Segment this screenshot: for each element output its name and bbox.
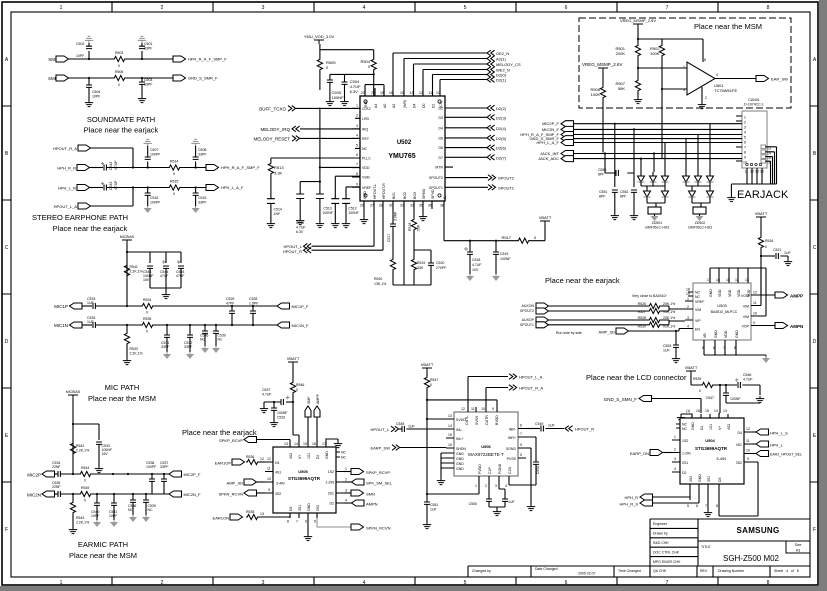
svg-text:VBATT: VBATT [421,362,434,367]
svg-text:RST: RST [362,137,370,141]
svg-text:AUXOP: AUXOP [522,318,535,322]
wire HPOUT_R_A [486,388,508,408]
wire soundmate line2 [69,77,174,79]
flag HPH_L_A_F [206,185,244,191]
node AMP_SD U505 [227,479,265,486]
svg-text:C1N: C1N [508,467,512,474]
text Run side by side [556,331,582,335]
svg-text:D5: D5 [439,136,444,140]
ground up [85,36,93,46]
capacitor C511 4.7UF 6.3V [296,108,360,235]
svg-text:D7: D7 [439,156,444,160]
svg-text:D4: D4 [439,126,444,130]
svg-text:Place near the earjack: Place near the earjack [53,224,128,233]
ground [85,87,93,106]
svg-text:10: 10 [481,407,485,411]
wire mic1p [95,305,277,307]
node EAR2_HPOUT_SEL [752,451,802,457]
svg-text:(1): (1) [686,409,690,413]
svg-text:R534: R534 [143,298,151,302]
capacitor C535b 22NF [52,481,61,497]
svg-text:2: 2 [356,113,358,117]
svg-text:VBATT: VBATT [685,365,698,370]
svg-text:A0: A0 [383,104,387,108]
svg-text:SPOUT1: SPOUT1 [520,323,534,327]
svg-text:17: 17 [322,442,326,446]
capacitor C538 100PF [146,461,156,494]
IC U502 YMU765 [352,88,453,209]
svg-text:NC: NC [341,451,347,455]
resistor R514 0 [168,160,181,177]
resistor R515 0 [168,180,181,197]
resistor R513 3.3K [268,158,360,176]
svg-text:SPOUT1: SPOUT1 [498,185,515,190]
svg-text:8: 8 [744,151,746,155]
svg-text:100NF: 100NF [277,411,288,415]
svg-text:F: F [813,527,816,533]
svg-text:SGH-Z500 M02: SGH-Z500 M02 [723,554,780,563]
svg-text:D2: D2 [330,502,335,506]
node SPKN_RCVN left [219,490,265,497]
node SPOUT1b [520,322,648,328]
svg-text:10: 10 [746,449,750,453]
wire BVDD rail [427,400,497,407]
svg-text:R513: R513 [274,165,284,170]
svg-text:18: 18 [380,91,384,95]
svg-text:AMP_SD: AMP_SD [227,481,244,486]
svg-text:31: 31 [400,204,404,208]
svg-text:3: 3 [262,5,265,11]
capacitor C534 22NF [52,461,61,477]
node D2(1) [487,77,507,83]
wire SVDD [427,418,446,420]
svg-text:MIC1N_F: MIC1N_F [292,323,310,328]
net VREG_MSMP_2.6V left [582,62,623,72]
svg-text:C537: C537 [262,388,270,392]
svg-text:BO1: BO1 [392,192,396,199]
svg-text:SMP: SMP [307,396,311,404]
svg-text:SPKP_RCVP: SPKP_RCVP [219,438,243,443]
capacitor C551b 1UF [424,502,438,522]
ground up [191,139,199,157]
svg-text:GND: GND [698,474,702,482]
svg-text:12: 12 [419,91,423,95]
svg-text:Place near the MSM: Place near the MSM [69,551,137,560]
node HPOUT_R_A [509,385,543,391]
wire [638,39,687,79]
IC U503 BA4510_MLPCC [685,278,757,350]
svg-text:SPMO: SPMO [422,188,426,199]
svg-text:SVDD: SVDD [456,418,466,422]
capacitor C510 [296,181,321,219]
node EARP_ON [630,450,672,457]
ground [630,192,638,219]
svg-text:NC: NC [695,291,701,295]
svg-text:AMPN: AMPN [366,502,378,507]
svg-text:GND: GND [325,451,329,459]
ground tri [93,505,101,527]
wire PVDD to rail [427,481,479,494]
svg-text:C550: C550 [598,168,606,172]
svg-text:8PF: 8PF [599,195,605,199]
node AMP_SD [599,328,685,334]
resistor R530 91K 1% [638,320,685,329]
svg-text:MIC1N: MIC1N [54,323,68,328]
svg-text:10V: 10V [472,268,479,272]
text Place near the earjack (U503) [545,276,620,285]
svg-text:C529: C529 [226,297,234,301]
ground [270,420,278,427]
svg-text:4: 4 [505,484,507,488]
svg-text:6: 6 [565,580,568,586]
node D2(4) [453,125,507,131]
svg-text:4S1: 4S1 [275,471,281,475]
resistor R547 0 [424,376,438,502]
svg-text:0: 0 [296,388,298,392]
svg-text:C516: C516 [150,196,158,200]
svg-text:V+: V+ [718,426,722,430]
svg-text:R533: R533 [130,347,138,351]
svg-text:GND: GND [456,462,464,466]
svg-text:VREG_MSMP_2.6V: VREG_MSMP_2.6V [582,62,623,67]
svg-text:2005.02.07: 2005.02.07 [578,572,596,576]
IC U505 STG3699AQTR [265,442,347,524]
svg-text:D1: D1 [316,454,320,459]
node MELODY_RESET [253,136,360,142]
svg-text:0: 0 [765,245,767,249]
svg-text:6: 6 [744,141,746,145]
svg-text:ZD502: ZD502 [695,221,706,225]
svg-text:2S1: 2S1 [682,461,688,465]
svg-text:7: 7 [744,146,746,150]
flag AMPP up [314,393,320,442]
svg-text:R535: R535 [246,510,254,514]
wire 3S2 down [719,462,758,516]
node SPKP_RCVP left [219,437,290,444]
svg-text:VSM: VSM [362,176,370,180]
ground pin [419,209,427,221]
svg-text:R546: R546 [296,383,304,387]
svg-text:1UF: 1UF [87,320,94,324]
capacitor C543b 100NF 16V [143,266,154,282]
svg-text:R503: R503 [115,51,123,55]
svg-text:D2(1): D2(1) [496,78,507,83]
svg-text:SPKP_RCVP: SPKP_RCVP [366,470,390,475]
ground [342,221,350,228]
wire vbatt bus [444,209,545,241]
node A2(1) [487,56,506,62]
node WE2_N [487,67,510,73]
ground U504 pin17 [677,414,692,422]
capacitor C501 33PF [139,42,152,59]
svg-text:YMU765: YMU765 [388,153,415,160]
svg-text:VIM: VIM [695,308,701,312]
wire earmic bias [73,399,99,474]
node MIC2N_F [542,126,574,132]
svg-text:C508: C508 [198,148,206,152]
svg-text:3S1: 3S1 [298,505,302,511]
ground tri [186,337,194,359]
svg-text:Place near the earjack: Place near the earjack [545,276,620,285]
svg-text:GND: GND [456,467,464,471]
svg-text:MAX9722BETE-T: MAX9722BETE-T [468,452,504,457]
svg-text:11: 11 [746,439,750,443]
node MELODY_IRQ [260,126,360,132]
node D2(7) [453,155,507,161]
svg-text:35: 35 [419,204,423,208]
capacitor C533 1UF [82,297,95,309]
node HPOUT_R [283,209,383,254]
svg-text:6.3V: 6.3V [296,230,304,234]
capacitor C542 4.7UF [90,160,119,170]
svg-text:4.7UF: 4.7UF [743,378,753,382]
svg-text:D3: D3 [289,506,293,511]
capacitor C553 1UF [663,330,679,356]
node JACK_INT [540,151,573,157]
svg-text:D2: D2 [682,471,687,475]
wire [91,148,134,168]
svg-text:Time Changed: Time Changed [618,569,641,573]
svg-text:GND: GND [363,191,367,199]
node AUXON SPOUT2 [522,303,648,309]
svg-text:0: 0 [173,192,175,196]
svg-text:R519: R519 [417,261,425,265]
svg-text:3: 3 [356,124,358,128]
svg-text:VDD: VDD [724,330,728,338]
svg-text:Size: Size [795,543,802,547]
node HPOUT_L_A [509,374,543,380]
wire mic2n [60,493,169,495]
ground U502 pin GND [360,209,368,224]
svg-text:8: 8 [716,504,718,508]
svg-text:15: 15 [726,278,730,282]
resistor R506 0 [113,70,126,87]
svg-text:14: 14 [735,278,739,282]
svg-text:21: 21 [371,91,375,95]
net VBATT U505 [287,356,300,381]
svg-text:1S1: 1S1 [307,453,311,459]
svg-text:EAR_SW: EAR_SW [771,77,788,82]
svg-text:6.3V: 6.3V [350,89,359,94]
capacitor C544 47UF [160,260,169,278]
svg-text:100NF: 100NF [500,257,511,261]
svg-text:270PF: 270PF [436,266,446,270]
ground tri [466,274,474,281]
svg-text:4: 4 [356,134,358,138]
svg-text:HPH_R_A_F_SMP_F: HPH_R_A_F_SMP_F [221,165,260,170]
svg-text:1: 1 [345,467,347,471]
svg-text:D1: D1 [700,425,704,430]
svg-text:4.7UF: 4.7UF [472,263,482,267]
svg-text:8: 8 [356,172,358,176]
capacitor C541 10PF [109,494,117,518]
svg-text:GND: GND [709,289,713,297]
svg-text:9: 9 [268,488,270,492]
svg-text:33PF: 33PF [144,83,152,87]
svg-text:BO2: BO2 [403,192,407,199]
svg-text:38: 38 [440,204,444,208]
capacitor C534b 1UF [82,316,95,328]
svg-text:VBATT: VBATT [287,356,300,361]
flag HPH_R_A_F_SMP_F [206,165,260,171]
svg-text:1UF: 1UF [548,424,555,428]
svg-text:D6: D6 [439,146,444,150]
svg-text:GND: GND [456,452,464,456]
svg-text:C552: C552 [536,466,540,474]
svg-text:HPOUT-R: HPOUT-R [382,183,386,199]
svg-text:GND: GND [691,422,695,430]
svg-text:NC: NC [682,427,688,431]
svg-text:8: 8 [767,5,770,11]
svg-text:27: 27 [370,204,374,208]
svg-text:SPKN_RCVN: SPKN_RCVN [219,492,244,497]
net VBATT (left) [539,215,552,241]
svg-text:11: 11 [267,467,271,471]
svg-text:1S2: 1S2 [682,439,688,443]
svg-text:33PF: 33PF [161,345,169,349]
svg-text:VOM: VOM [741,294,749,298]
ground [267,221,275,228]
svg-text:16V: 16V [102,452,109,456]
svg-text:8PF: 8PF [598,173,604,177]
svg-text:SPOUT1: SPOUT1 [429,186,443,190]
svg-text:200K: 200K [616,51,626,56]
svg-text:7: 7 [705,504,707,508]
svg-text:2.2K,1%: 2.2K,1% [76,521,89,525]
svg-text:6: 6 [565,5,568,11]
IC U506 MAX9722BETE-T [446,407,526,488]
node HPOUT_L to U506 [371,422,446,432]
svg-text:MTR: MTR [435,166,443,170]
svg-text:MELODY_IRQ: MELODY_IRQ [260,127,290,132]
svg-text:9: 9 [356,182,358,186]
svg-text:VDD: VDD [718,289,722,297]
svg-text:Run side by side: Run side by side [556,331,582,335]
ground earjack [727,184,735,202]
resistor R516 0 [758,236,773,268]
svg-text:C1P: C1P [488,467,492,474]
wire bottom bus [393,284,431,286]
svg-text:17: 17 [707,278,711,282]
node EAR1ON [213,510,290,521]
ground [611,192,619,219]
node SPOUT1 [453,185,515,191]
svg-text:PVSS: PVSS [507,457,517,461]
svg-text:20: 20 [361,91,365,95]
capacitor C531 33PF [161,325,170,349]
capacitor C546 4.7UF [735,373,760,395]
svg-text:AMPN: AMPN [790,324,803,329]
svg-text:6: 6 [520,424,522,428]
svg-text:16: 16 [389,91,393,95]
svg-text:R515: R515 [170,180,178,184]
svg-text:4.7UF: 4.7UF [296,226,306,230]
svg-text:GND_S_SMR_F: GND_S_SMR_F [188,76,218,81]
svg-text:R545: R545 [81,486,89,490]
ground tri [163,337,171,359]
svg-text:28: 28 [379,204,383,208]
wire U503 outputs [756,268,775,326]
wire SPKN gray [317,518,351,527]
svg-text:4.7UF: 4.7UF [262,393,272,397]
svg-text:MICBIAS: MICBIAS [66,390,81,394]
svg-text:26: 26 [360,204,364,208]
svg-text:12: 12 [746,427,750,431]
svg-text:SPVD: SPVD [431,189,435,199]
node MIC2P_F [542,121,573,127]
svg-text:MPG ENGR CHK: MPG ENGR CHK [653,560,681,564]
svg-text:5: 5 [356,144,358,148]
svg-text:(WR): (WR) [403,100,407,108]
net VBATT U504 [685,365,701,385]
svg-text:1UF: 1UF [784,251,791,255]
svg-text:6: 6 [356,153,358,157]
svg-text:3S2: 3S2 [275,492,281,496]
svg-text:MIC1P: MIC1P [54,304,68,309]
svg-text:2: 2 [744,121,746,125]
svg-text:C549: C549 [535,422,543,426]
svg-text:Very close to BA4510!: Very close to BA4510! [632,294,666,298]
svg-text:2: 2 [687,305,689,309]
svg-text:GMF05LC-HS3: GMF05LC-HS3 [688,226,712,230]
svg-text:EARMIC PATH: EARMIC PATH [78,540,128,549]
svg-text:5: 5 [314,520,316,524]
svg-text:16: 16 [448,443,452,447]
svg-text:AUXON: AUXON [522,304,535,308]
svg-text:2S2: 2S2 [689,476,693,482]
svg-text:7: 7 [356,163,358,167]
svg-text:A4: A4 [374,104,378,108]
node HPH_R_A_F_SMP_F [520,132,573,138]
svg-text:D2(2): D2(2) [496,106,507,111]
capacitor C519 100NF [493,241,511,274]
node SMP [48,56,68,62]
svg-text:Place near the MSM: Place near the MSM [88,394,156,403]
svg-text:1: 1 [60,5,63,11]
ground mic bias caps [150,268,181,298]
svg-text:JACK_ADC: JACK_ADC [538,156,559,161]
svg-text:2.2K,1%: 2.2K,1% [76,449,89,453]
svg-text:GND: GND [714,330,718,338]
ground tri [110,505,118,527]
svg-text:1S1: 1S1 [709,424,713,430]
svg-text:C507: C507 [150,148,158,152]
op-amp U1 TC75W51FE [683,58,737,100]
svg-text:NC: NC [682,423,688,427]
ground up [144,139,152,157]
svg-text:C503: C503 [144,78,152,82]
svg-text:U506: U506 [481,444,491,449]
svg-text:INL-: INL- [456,428,463,432]
svg-text:VREG_MSMP_2.6V: VREG_MSMP_2.6V [620,18,656,23]
resistor R526 20K 1% [638,302,676,309]
svg-text:13: 13 [260,512,264,516]
svg-text:D3: D3 [439,116,444,120]
wire [106,167,206,169]
flag MIC1N_F [277,322,309,328]
svg-text:13: 13 [745,278,749,282]
wire U503 top bus [710,268,761,295]
svg-text:VIM: VIM [743,315,749,319]
svg-text:MIC2N: MIC2N [27,493,41,498]
capacitor C514 1NF [267,175,282,221]
svg-text:C502: C502 [76,42,84,46]
svg-text:D1: D1 [432,103,436,108]
svg-text:15: 15 [400,91,404,95]
svg-text:C501: C501 [144,42,152,46]
svg-text:20K,1%: 20K,1% [663,316,675,320]
text MIC PATH [88,383,156,403]
